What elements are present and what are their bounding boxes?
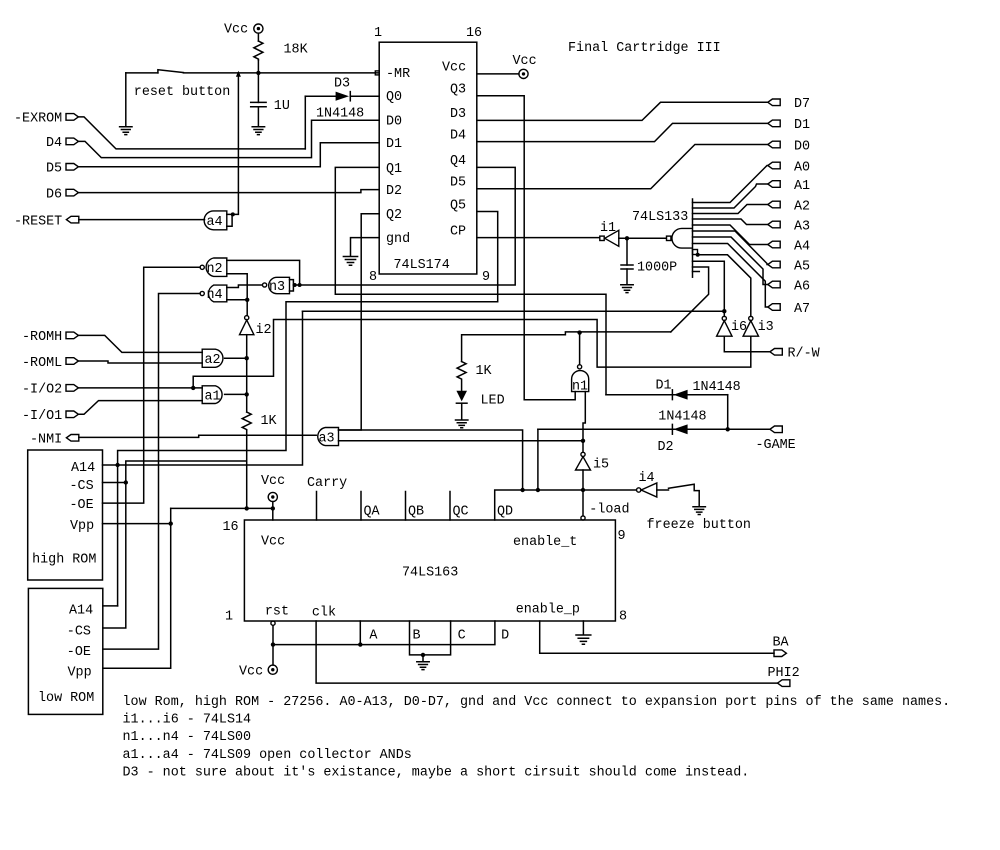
svg-text:Vcc: Vcc bbox=[224, 22, 248, 37]
svg-text:1N4148: 1N4148 bbox=[316, 106, 364, 121]
open-collector AND a4 bbox=[204, 211, 227, 230]
svg-text:74LS174: 74LS174 bbox=[394, 258, 450, 273]
ground below 1000P bbox=[621, 285, 633, 293]
junction dot A14 high riser bbox=[115, 463, 119, 467]
svg-text:i3: i3 bbox=[758, 320, 774, 335]
wire -EXROM bbox=[78, 117, 305, 149]
svg-text:a1: a1 bbox=[205, 389, 221, 404]
n3 input bracket bbox=[290, 280, 294, 291]
svg-text:-CS: -CS bbox=[70, 479, 94, 494]
connector -GAME bbox=[756, 426, 796, 453]
ground at 74LS174 gnd bbox=[343, 257, 357, 266]
wire n4 top input to n3 output bbox=[227, 285, 262, 288]
wire stub to connector A1 bbox=[693, 184, 768, 208]
diode D3 1N4148 bbox=[305, 92, 379, 101]
ROM box low ROM bbox=[28, 588, 102, 714]
pin QA stub bbox=[360, 492, 362, 521]
junction dot rst net bbox=[271, 642, 275, 646]
svg-text:18K: 18K bbox=[284, 42, 309, 57]
Vcc terminal circle below rst bbox=[268, 665, 277, 674]
svg-text:high ROM: high ROM bbox=[32, 553, 96, 568]
wire i5 to -load node bbox=[582, 470, 584, 516]
svg-text:A7: A7 bbox=[794, 302, 810, 317]
wire down to capacitor 1000P bbox=[626, 238, 628, 265]
wire D1 to -GAME line bbox=[727, 395, 729, 430]
wire n1 output net to LED branch bbox=[462, 332, 671, 362]
svg-text:74LS133: 74LS133 bbox=[632, 210, 688, 225]
connector D4 bbox=[46, 136, 78, 151]
wire Vcc circle to 74LS163 Vcc pin bbox=[272, 502, 274, 520]
svg-text:n4: n4 bbox=[207, 288, 223, 303]
wire 1K to -CS chain and Vcc rail bbox=[103, 430, 247, 628]
svg-text:-NMI: -NMI bbox=[30, 433, 62, 448]
svg-text:-ROML: -ROML bbox=[22, 356, 62, 371]
junction dot reset node bbox=[256, 71, 260, 75]
wire rst to Vcc terminal and A D pins bbox=[273, 621, 495, 665]
svg-text:8: 8 bbox=[619, 610, 627, 625]
open-collector AND a2 bbox=[202, 349, 223, 368]
wire -NMI to a3 bbox=[79, 435, 316, 437]
wire -RESET to a4 bbox=[79, 219, 205, 221]
svg-text:1: 1 bbox=[374, 26, 382, 41]
svg-text:-RESET: -RESET bbox=[14, 214, 62, 229]
junction dot n1 output bbox=[577, 330, 581, 334]
Vcc terminal circle above 74LS163 bbox=[268, 492, 277, 501]
svg-text:B: B bbox=[413, 628, 421, 643]
wire QD bracket to -load line bbox=[495, 490, 583, 520]
wire A14 low bbox=[103, 605, 118, 607]
svg-text:D6: D6 bbox=[46, 187, 62, 202]
junction dot a2 output bbox=[245, 356, 249, 360]
svg-text:i1: i1 bbox=[600, 221, 616, 236]
svg-text:D: D bbox=[501, 628, 509, 643]
svg-text:n1...n4 - 74LS00: n1...n4 - 74LS00 bbox=[123, 730, 252, 745]
wire Q3 to n1 left input bbox=[477, 96, 575, 400]
junction dot a1 output bbox=[245, 392, 249, 396]
svg-text:D1: D1 bbox=[656, 379, 672, 394]
svg-text:Q0: Q0 bbox=[386, 90, 402, 105]
wire stub to connector A7 and inverter i3 bbox=[693, 244, 768, 308]
wire -ROMH to a2 bbox=[78, 335, 202, 352]
svg-text:CP: CP bbox=[450, 224, 466, 239]
wire resistor to junction and down to capacitor 1U bbox=[257, 60, 259, 102]
inverter i4 bbox=[637, 471, 657, 497]
svg-text:A0: A0 bbox=[794, 160, 810, 175]
wire i3 output to a1 input net bbox=[193, 320, 751, 388]
junction dot Vpp high bbox=[169, 521, 173, 525]
wire stub to connector A5 bbox=[693, 231, 768, 265]
wire n4 bottom input bbox=[227, 299, 247, 301]
wire -MR reset line bbox=[126, 72, 379, 74]
svg-text:QB: QB bbox=[408, 504, 424, 519]
connector -ROMH bbox=[22, 330, 78, 345]
resistor 1K pull-up bbox=[242, 412, 251, 430]
svg-text:1U: 1U bbox=[274, 99, 290, 114]
svg-text:R/-W: R/-W bbox=[788, 347, 821, 362]
wire B C pins to ground bbox=[410, 621, 451, 661]
connector -I/O1 bbox=[22, 409, 78, 424]
connector A3 bbox=[768, 219, 810, 234]
wire a1 output to rail bbox=[225, 393, 247, 395]
pin Carry stub bbox=[316, 492, 318, 521]
wire 74LS133 stub to inverter i6 bbox=[693, 261, 725, 316]
svg-text:A2: A2 bbox=[794, 199, 810, 214]
svg-text:A4: A4 bbox=[794, 239, 810, 254]
capacitor C 1000P bbox=[621, 265, 633, 284]
connector D7 bbox=[768, 97, 810, 112]
LED diode bbox=[456, 391, 467, 420]
svg-text:BA: BA bbox=[773, 636, 790, 651]
svg-text:D0: D0 bbox=[386, 115, 402, 130]
svg-text:Vcc: Vcc bbox=[442, 61, 466, 76]
svg-text:PHI2: PHI2 bbox=[768, 666, 800, 681]
svg-text:Vcc: Vcc bbox=[261, 534, 285, 549]
svg-text:A14: A14 bbox=[71, 461, 95, 476]
svg-text:a4: a4 bbox=[207, 215, 223, 230]
wire clk to connector PHI2 bbox=[316, 621, 777, 683]
connector PHI2 bbox=[768, 666, 800, 687]
diode D1 1N4148 bbox=[606, 390, 728, 400]
svg-text:1: 1 bbox=[225, 610, 233, 625]
ground below enable_p bbox=[576, 635, 591, 644]
wire Vcc to resistor R 18K bbox=[257, 33, 259, 41]
capacitor C 1U bbox=[251, 102, 266, 126]
wire D6 to 74LS174 D2 bbox=[78, 190, 379, 193]
wire D2 line down to -load net bbox=[537, 429, 539, 490]
IC U1 74LS174 box bbox=[379, 42, 477, 274]
wire n4 output to low ROM -OE bbox=[103, 294, 200, 650]
wire CP pin to inverter i1 bbox=[477, 237, 600, 239]
connector D0 bbox=[768, 139, 810, 154]
wire stub to connector A2 bbox=[693, 205, 768, 214]
svg-text:D3: D3 bbox=[334, 76, 350, 91]
connector -I/O2 bbox=[22, 383, 78, 398]
svg-text:Q4: Q4 bbox=[450, 154, 466, 169]
svg-text:-OE: -OE bbox=[70, 498, 94, 513]
wire Vcc rail to Vpp riser bbox=[171, 507, 273, 509]
svg-text:D2: D2 bbox=[386, 184, 402, 199]
junction dot A pin bbox=[358, 642, 362, 646]
wire reset button to ground bbox=[125, 73, 127, 126]
svg-text:-EXROM: -EXROM bbox=[14, 112, 62, 127]
svg-text:A6: A6 bbox=[794, 279, 810, 294]
svg-text:1N4148: 1N4148 bbox=[693, 380, 741, 395]
-load pin bubble on 74LS163 bbox=[581, 516, 585, 520]
wire i1 to 74LS133 gate bbox=[619, 237, 667, 239]
wire 74LS133 bottom tick bbox=[693, 271, 700, 273]
svg-text:A14: A14 bbox=[69, 604, 93, 619]
ground below freeze button bbox=[693, 507, 705, 515]
junction dot a3 output at i5 column bbox=[581, 439, 585, 443]
wire n1 bubble riser bbox=[579, 333, 581, 365]
svg-text:8: 8 bbox=[369, 270, 377, 285]
connector A5 bbox=[768, 259, 810, 274]
wire Q1 to D1 diode branch bbox=[335, 167, 606, 394]
svg-text:LED: LED bbox=[481, 393, 505, 408]
pin QB stub bbox=[405, 492, 407, 521]
wire Q5 pin to ROM A14 chain bbox=[118, 212, 498, 606]
svg-text:n2: n2 bbox=[207, 262, 223, 277]
junction dot D2 branch on load line bbox=[536, 488, 540, 492]
svg-text:A3: A3 bbox=[794, 219, 810, 234]
open-collector AND a1 bbox=[202, 386, 222, 405]
wire stub to connector A0 bbox=[693, 166, 768, 203]
svg-text:D7: D7 bbox=[794, 97, 810, 112]
svg-text:Q2: Q2 bbox=[386, 208, 402, 223]
IC U3 74LS163 box bbox=[244, 520, 615, 621]
svg-text:Vpp: Vpp bbox=[68, 665, 92, 680]
connector A7 bbox=[768, 302, 810, 317]
wire -I/O2 to a1 bbox=[78, 387, 202, 389]
ground below reset button bbox=[120, 127, 132, 135]
svg-text:Q3: Q3 bbox=[450, 83, 466, 98]
svg-text:-OE: -OE bbox=[67, 645, 91, 660]
Vcc terminal circle right of 74LS174 bbox=[519, 69, 528, 78]
wire -ROML to a2 bbox=[78, 361, 202, 363]
svg-text:D1: D1 bbox=[386, 137, 402, 152]
wire square pin to i3 column bbox=[698, 255, 751, 317]
diode D2 1N4148 bbox=[538, 424, 770, 434]
wire D5 pin to connector D0 bbox=[477, 145, 768, 189]
svg-text:1K: 1K bbox=[476, 364, 493, 379]
wire n2 top input to n3 net bbox=[227, 260, 300, 285]
wire gnd pin to ground bbox=[351, 238, 380, 256]
wire Q4 pin to n3 input net bbox=[293, 167, 515, 285]
inverter i3 bbox=[743, 316, 774, 336]
NAND n3 bbox=[263, 277, 290, 295]
svg-text:Final Cartridge III: Final Cartridge III bbox=[568, 41, 721, 56]
wire stub to connector A3 bbox=[693, 219, 768, 225]
connector A0 bbox=[768, 160, 810, 175]
svg-text:enable_p: enable_p bbox=[516, 602, 580, 617]
svg-text:clk: clk bbox=[312, 606, 336, 621]
wire n1 right input to i5 bbox=[583, 392, 585, 453]
svg-text:D4: D4 bbox=[450, 128, 466, 143]
svg-text:1N4148: 1N4148 bbox=[658, 410, 706, 425]
wire D3 to -EXROM line bbox=[304, 96, 306, 149]
connector A2 bbox=[768, 199, 810, 214]
svg-text:-I/O1: -I/O1 bbox=[22, 409, 62, 424]
junction dot -load node bbox=[581, 488, 585, 492]
svg-text:A: A bbox=[369, 628, 378, 643]
NAND n4 bbox=[200, 285, 227, 303]
wire A14 high to bus bbox=[103, 311, 303, 465]
connector A4 bbox=[768, 239, 810, 254]
svg-text:low Rom, high ROM - 27256. A0-: low Rom, high ROM - 27256. A0-A13, D0-D7… bbox=[123, 695, 951, 710]
freeze button switch bbox=[657, 484, 699, 506]
svg-text:C: C bbox=[458, 628, 466, 643]
svg-text:freeze button: freeze button bbox=[647, 518, 751, 533]
svg-text:-load: -load bbox=[589, 502, 629, 517]
wire D4 to 74LS174 D0 bbox=[78, 120, 379, 157]
junction dot rail to Vcc line bbox=[245, 506, 249, 510]
svg-text:-ROMH: -ROMH bbox=[22, 330, 62, 345]
wire enable_p to ground bbox=[582, 621, 584, 635]
svg-text:QC: QC bbox=[453, 504, 469, 519]
svg-text:Q5: Q5 bbox=[450, 198, 466, 213]
wire n2 output to high ROM -OE bbox=[103, 267, 201, 503]
svg-text:QA: QA bbox=[364, 504, 381, 519]
svg-text:i2: i2 bbox=[256, 323, 272, 338]
connector -EXROM bbox=[14, 112, 78, 127]
wire i6 input net horizontal bbox=[303, 310, 725, 312]
wire i6 output to connector R/-W bbox=[724, 336, 770, 352]
wire -load to inverter i4 bbox=[583, 489, 636, 491]
svg-text:Vpp: Vpp bbox=[70, 519, 94, 534]
svg-text:i4: i4 bbox=[639, 471, 655, 486]
junction dot Vcc rail bbox=[271, 506, 275, 510]
wire D4 pin to connector D1 bbox=[477, 123, 768, 141]
connector D6 bbox=[46, 187, 78, 202]
svg-text:1000P: 1000P bbox=[637, 260, 677, 275]
svg-text:Q1: Q1 bbox=[386, 162, 402, 177]
svg-text:-GAME: -GAME bbox=[756, 438, 796, 453]
connector R/-W bbox=[770, 347, 821, 362]
svg-text:16: 16 bbox=[466, 26, 482, 41]
wire a2 output to rail bbox=[225, 357, 247, 359]
svg-text:A1: A1 bbox=[794, 179, 810, 194]
wire Vpp high to Vcc rail bbox=[103, 524, 171, 669]
resistor 1K LED bbox=[457, 362, 466, 391]
wire stub to connector A6 bbox=[693, 237, 768, 285]
wire 74LS174 Vcc pin bbox=[477, 73, 519, 75]
junction dots n3 input net bbox=[293, 283, 302, 287]
wire -I/O1 to a1 bbox=[78, 401, 202, 415]
svg-text:D5: D5 bbox=[46, 162, 62, 177]
svg-text:rst: rst bbox=[265, 605, 289, 620]
connector D1 bbox=[768, 118, 810, 133]
ROM box high ROM bbox=[28, 450, 103, 580]
connector -ROML bbox=[22, 356, 78, 371]
svg-text:n3: n3 bbox=[269, 280, 285, 295]
inverter i5 bbox=[576, 452, 610, 472]
svg-text:i5: i5 bbox=[593, 457, 609, 472]
svg-text:a2: a2 bbox=[205, 353, 221, 368]
pin QC stub bbox=[449, 492, 451, 521]
connector -RESET bbox=[14, 214, 79, 229]
wire D3 pin to connector D7 bbox=[477, 102, 768, 120]
connector D5 bbox=[46, 162, 78, 177]
svg-text:Vcc: Vcc bbox=[239, 665, 263, 680]
reset button switch arm bbox=[158, 70, 184, 73]
svg-text:D1: D1 bbox=[794, 118, 810, 133]
Vcc terminal circle top-left bbox=[254, 24, 263, 33]
ground below capacitor 1U bbox=[252, 127, 264, 135]
svg-text:Vcc: Vcc bbox=[513, 54, 537, 69]
svg-text:D5: D5 bbox=[450, 176, 466, 191]
svg-text:i1...i6 - 74LS14: i1...i6 - 74LS14 bbox=[123, 713, 252, 728]
wire 74LS133 output elbow diagonal to n1 net bbox=[671, 267, 709, 332]
inverter i6 bbox=[717, 316, 747, 336]
wire D5 to 74LS174 D1 bbox=[78, 143, 379, 167]
IC U2 74LS133 gate body bbox=[667, 228, 693, 248]
junction dot n4 bottom input bbox=[245, 298, 249, 302]
junction dot D1 to D2 bbox=[726, 427, 730, 431]
ground below LED bbox=[456, 420, 468, 428]
junction dot i6 input bbox=[722, 309, 726, 313]
wire a3 output to i5 net bbox=[339, 440, 584, 442]
resistor 18K bbox=[254, 41, 263, 60]
svg-text:1K: 1K bbox=[261, 414, 278, 429]
74LS133 input bar bbox=[692, 199, 694, 277]
svg-text:D0: D0 bbox=[794, 139, 810, 154]
wire Vpp riser top corner bbox=[170, 508, 172, 523]
svg-text:QD: QD bbox=[497, 504, 513, 519]
connector A1 bbox=[768, 179, 810, 194]
wire BA pin to connector BA bbox=[540, 621, 774, 653]
svg-text:16: 16 bbox=[223, 520, 239, 535]
svg-text:-CS: -CS bbox=[67, 625, 91, 640]
NAND n1 bbox=[572, 365, 589, 395]
wire a3 second input stub to Q2 bbox=[339, 430, 523, 490]
svg-text:A5: A5 bbox=[794, 259, 810, 274]
junction dot B C ground bbox=[421, 653, 425, 657]
junction dot 1000P tap bbox=[625, 236, 629, 240]
svg-text:-MR: -MR bbox=[386, 67, 410, 82]
a4 input bracket and wire to reset line with arrowhead bbox=[227, 71, 241, 227]
wire n2 bottom input to i2 bbox=[227, 274, 247, 316]
svg-text:D2: D2 bbox=[658, 440, 674, 455]
svg-text:Carry: Carry bbox=[307, 476, 347, 491]
junction dot high ROM -CS bbox=[124, 480, 128, 484]
wire stub to connector A4 bbox=[693, 225, 768, 245]
svg-text:a1...a4 - 74LS09 open collecto: a1...a4 - 74LS09 open collector ANDs bbox=[123, 748, 412, 763]
svg-text:a3: a3 bbox=[319, 431, 335, 446]
pin -MR bubble bbox=[375, 71, 379, 75]
svg-text:gnd: gnd bbox=[386, 232, 410, 247]
svg-text:D4: D4 bbox=[46, 136, 62, 151]
svg-text:-I/O2: -I/O2 bbox=[22, 383, 62, 398]
svg-text:low ROM: low ROM bbox=[38, 691, 94, 706]
wire pull-up rail i2 to a2 a1 and 1K bbox=[246, 335, 248, 412]
svg-text:9: 9 bbox=[482, 270, 490, 285]
inverter i1 bbox=[600, 221, 619, 247]
74LS133 square pin bbox=[693, 250, 700, 257]
svg-text:enable_t: enable_t bbox=[513, 535, 577, 550]
connector -NMI bbox=[30, 433, 79, 448]
open-collector AND a3 bbox=[318, 428, 339, 447]
pin rst bubble bbox=[271, 621, 275, 625]
svg-text:Vcc: Vcc bbox=[261, 474, 285, 489]
ground below B C bbox=[417, 662, 429, 670]
svg-text:D3 - not sure about it's exist: D3 - not sure about it's existance, mayb… bbox=[123, 766, 750, 781]
junction dot i3 net on -I/O2 bbox=[191, 386, 195, 390]
inverter i2 bbox=[240, 316, 272, 339]
svg-text:74LS163: 74LS163 bbox=[402, 566, 458, 581]
wire Q2 to a3 input bbox=[339, 214, 380, 430]
svg-text:D3: D3 bbox=[450, 107, 466, 122]
svg-text:9: 9 bbox=[618, 529, 626, 544]
connector BA bbox=[773, 636, 790, 657]
NAND n2 bbox=[200, 258, 227, 277]
connector A6 bbox=[768, 279, 810, 294]
junction dot riser a3 net bbox=[520, 488, 524, 492]
svg-text:reset button: reset button bbox=[134, 85, 230, 100]
